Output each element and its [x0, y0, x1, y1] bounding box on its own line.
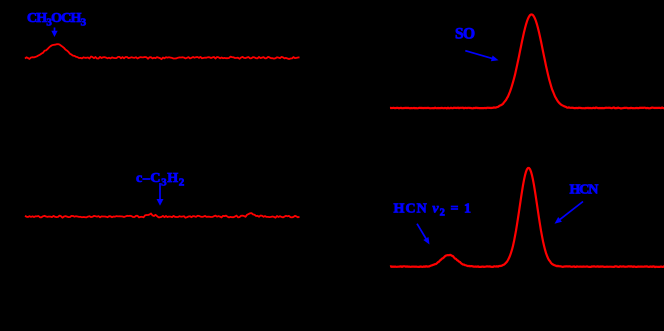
svg-text:SO: SO — [455, 26, 475, 43]
svg-text:HCN: HCN — [570, 182, 599, 197]
svg-text:HCN ν2 = 1: HCN ν2 = 1 — [394, 202, 473, 219]
svg-text:CH3OCH3: CH3OCH3 — [27, 11, 87, 29]
